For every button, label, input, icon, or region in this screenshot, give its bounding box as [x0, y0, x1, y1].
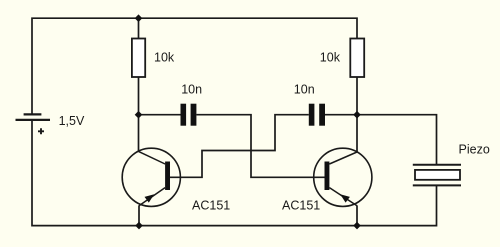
- svg-text:Piezo: Piezo: [459, 142, 490, 156]
- svg-text:1,5V: 1,5V: [59, 114, 85, 128]
- svg-text:10k: 10k: [320, 51, 341, 65]
- svg-text:AC151: AC151: [192, 198, 230, 212]
- svg-text:10k: 10k: [154, 51, 175, 65]
- svg-text:10n: 10n: [294, 83, 315, 97]
- svg-text:10n: 10n: [181, 82, 202, 96]
- svg-text:AC151: AC151: [282, 198, 320, 212]
